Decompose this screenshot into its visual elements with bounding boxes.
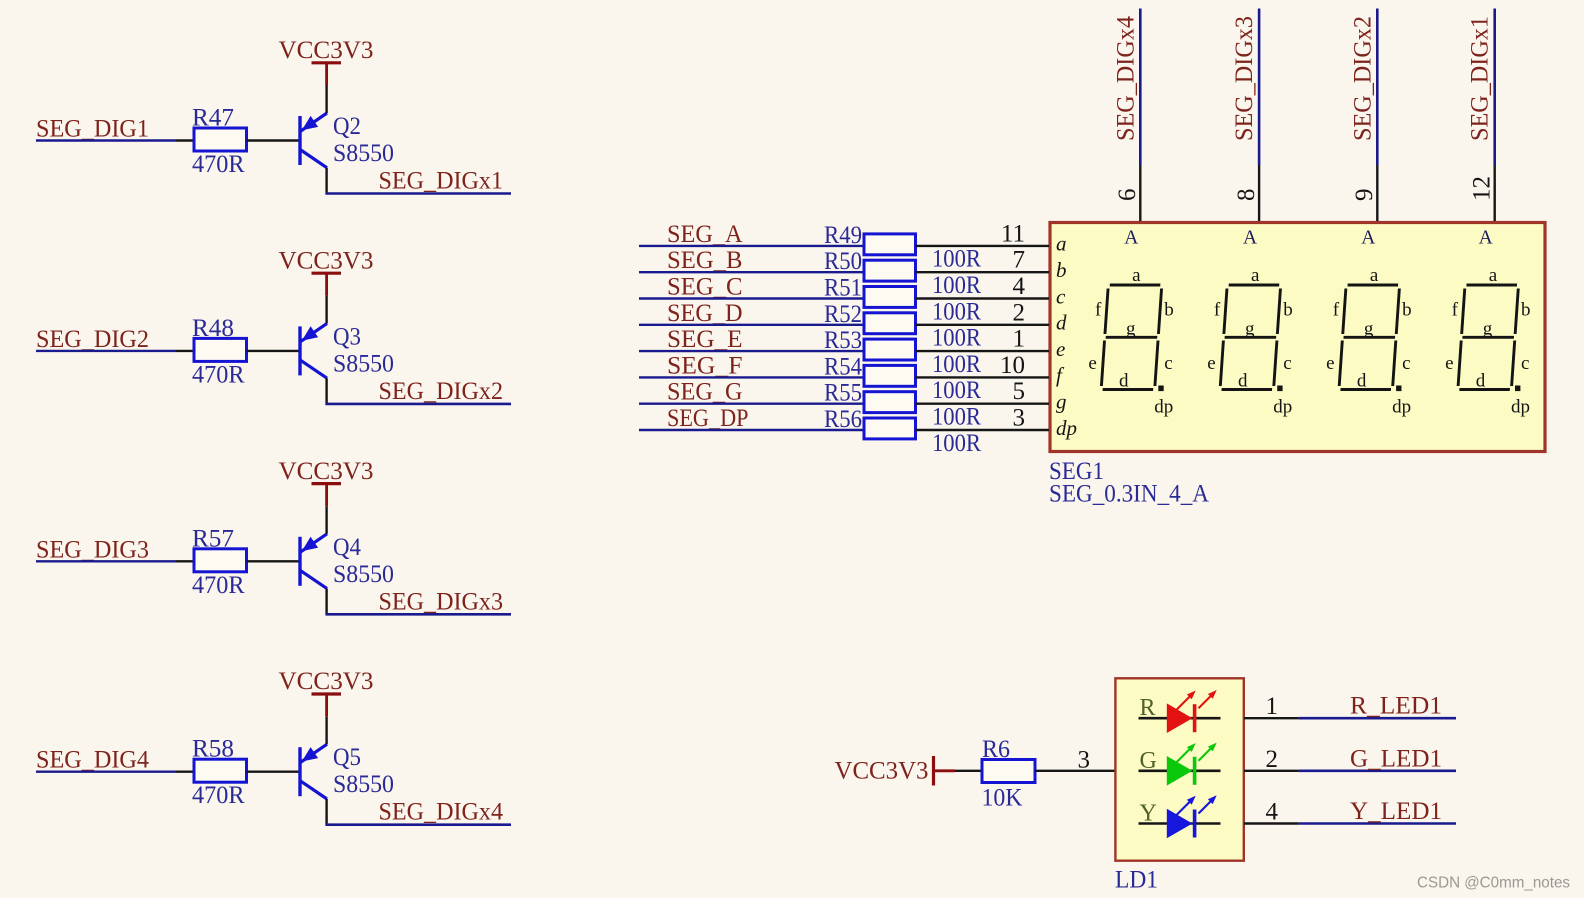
svg-text:dp: dp xyxy=(1511,397,1530,418)
svg-text:R6: R6 xyxy=(982,734,1010,763)
svg-text:SEG_DIG4: SEG_DIG4 xyxy=(36,745,149,774)
svg-text:dp: dp xyxy=(1392,397,1411,418)
wire R48 left pin xyxy=(176,350,193,352)
svg-text:SEG_DIGx1: SEG_DIGx1 xyxy=(379,166,504,195)
svg-text:VCC3V3: VCC3V3 xyxy=(835,756,929,785)
svg-text:f: f xyxy=(1214,300,1221,321)
svg-text:dp: dp xyxy=(1056,416,1077,440)
svg-text:f: f xyxy=(1095,300,1102,321)
svg-text:dp: dp xyxy=(1154,397,1173,418)
svg-text:d: d xyxy=(1119,371,1129,392)
transistor Q3 S8550 xyxy=(300,323,327,378)
svg-text:d: d xyxy=(1238,371,1248,392)
svg-text:SEG_D: SEG_D xyxy=(667,298,743,327)
wire R54 to SEG1 pin 10 xyxy=(916,376,1050,378)
wire R56 to SEG1 pin 3 xyxy=(916,429,1050,431)
svg-text:12: 12 xyxy=(1469,176,1496,201)
svg-text:SEG_G: SEG_G xyxy=(667,377,743,406)
resistor R51 100R xyxy=(864,287,916,308)
resistor R48 470R xyxy=(194,338,247,361)
svg-text:S8550: S8550 xyxy=(333,559,394,588)
transistor Q2 S8550 xyxy=(300,113,327,168)
wire Q2 emitter to power xyxy=(325,86,327,114)
wire R57 to Q4 base xyxy=(247,560,300,562)
wire SEG_DIGx1 xyxy=(325,192,511,195)
svg-text:Q5: Q5 xyxy=(333,742,361,771)
svg-text:Y_LED1: Y_LED1 xyxy=(1350,796,1442,825)
svg-text:R: R xyxy=(1140,695,1156,721)
svg-text:e: e xyxy=(1088,353,1096,374)
svg-text:4: 4 xyxy=(1266,799,1279,826)
svg-text:e: e xyxy=(1445,353,1453,374)
svg-text:c: c xyxy=(1402,353,1410,374)
svg-text:R50: R50 xyxy=(824,246,862,275)
svg-text:SEG_DIGx4: SEG_DIGx4 xyxy=(1110,16,1139,141)
wire R6 to LD1 pin 3 xyxy=(1035,770,1115,772)
svg-text:100R: 100R xyxy=(932,296,982,325)
wire R57 left pin xyxy=(176,560,193,562)
svg-text:g: g xyxy=(1364,319,1374,340)
wire R_LED1 xyxy=(1299,717,1456,720)
svg-text:LD1: LD1 xyxy=(1115,865,1158,894)
svg-text:SEG_F: SEG_F xyxy=(667,350,743,379)
svg-text:a: a xyxy=(1489,265,1498,286)
wire R47 to Q2 base xyxy=(247,139,300,141)
svg-text:A: A xyxy=(1361,228,1375,249)
LED Y right pin xyxy=(1244,822,1299,824)
svg-text:e: e xyxy=(1326,353,1334,374)
svg-text:S8550: S8550 xyxy=(333,138,394,167)
svg-text:11: 11 xyxy=(1001,220,1025,247)
wire SEG_B to R50 xyxy=(639,271,864,273)
svg-text:SEG_DIG1: SEG_DIG1 xyxy=(36,114,149,143)
svg-text:R57: R57 xyxy=(192,523,234,552)
wire R50 to SEG1 pin 7 xyxy=(916,271,1050,273)
svg-text:b: b xyxy=(1164,300,1174,321)
svg-text:a: a xyxy=(1251,265,1260,286)
wire VCC3V3 to R6 xyxy=(955,770,982,772)
wire SEG_DIG4 to R58 xyxy=(36,771,176,773)
LED R internal wire xyxy=(1139,717,1221,720)
transistor Q4 S8550 xyxy=(300,534,327,589)
svg-text:470R: 470R xyxy=(192,780,245,809)
power port VCC3V3 xyxy=(325,694,328,717)
wire R58 left pin xyxy=(176,771,193,773)
svg-text:A: A xyxy=(1124,228,1138,249)
resistor R58 470R xyxy=(194,759,247,782)
svg-text:A: A xyxy=(1479,228,1493,249)
resistor R50 100R xyxy=(864,260,916,281)
svg-text:G_LED1: G_LED1 xyxy=(1350,743,1442,772)
wire SEG_F to R54 xyxy=(639,376,864,378)
svg-text:3: 3 xyxy=(1013,405,1026,432)
resistor R49 100R xyxy=(864,234,916,255)
svg-text:dp: dp xyxy=(1273,397,1292,418)
wire Q5 emitter to power xyxy=(325,717,327,745)
svg-text:a: a xyxy=(1132,265,1141,286)
svg-text:R53: R53 xyxy=(824,325,862,354)
resistor R52 100R xyxy=(864,313,916,334)
wire R48 to Q3 base xyxy=(247,350,300,352)
svg-text:R52: R52 xyxy=(824,299,862,328)
svg-text:SEG_0.3IN_4_A: SEG_0.3IN_4_A xyxy=(1049,479,1209,508)
svg-text:e: e xyxy=(1056,337,1065,361)
resistor R55 100R xyxy=(864,392,916,413)
power port VCC3V3 xyxy=(325,273,328,296)
resistor R6 10K xyxy=(982,760,1035,783)
svg-text:S8550: S8550 xyxy=(333,348,394,377)
svg-text:SEG_DIGx3: SEG_DIGx3 xyxy=(1229,16,1258,141)
wire Q2 collector xyxy=(325,168,327,194)
svg-text:SEG_DIGx2: SEG_DIGx2 xyxy=(1347,16,1376,141)
LED G right pin xyxy=(1244,770,1299,772)
svg-text:Q3: Q3 xyxy=(333,321,361,350)
power port VCC3V3 xyxy=(325,63,328,86)
svg-text:R_LED1: R_LED1 xyxy=(1350,691,1442,720)
svg-text:7: 7 xyxy=(1013,247,1026,274)
svg-text:SEG_B: SEG_B xyxy=(667,245,743,274)
svg-text:b: b xyxy=(1402,300,1412,321)
pin 12 wire xyxy=(1493,165,1495,221)
LED R symbol xyxy=(1167,690,1217,733)
svg-text:a: a xyxy=(1056,232,1067,256)
svg-text:100R: 100R xyxy=(932,323,982,352)
svg-text:SEG_E: SEG_E xyxy=(667,324,743,353)
svg-text:100R: 100R xyxy=(932,375,982,404)
svg-text:SEG_DIGx4: SEG_DIGx4 xyxy=(379,797,504,826)
svg-text:g: g xyxy=(1056,390,1067,414)
wire SEG_DIGx4 vertical xyxy=(1139,9,1142,166)
wire SEG_DIGx3 vertical xyxy=(1258,9,1261,166)
svg-text:SEG_C: SEG_C xyxy=(667,272,743,301)
svg-text:g: g xyxy=(1126,319,1136,340)
svg-text:9: 9 xyxy=(1351,189,1378,202)
digit glyph 4 xyxy=(1458,285,1519,390)
svg-text:c: c xyxy=(1521,353,1529,374)
digit glyph 2 xyxy=(1220,285,1281,390)
svg-text:100R: 100R xyxy=(932,244,982,273)
svg-text:f: f xyxy=(1452,300,1459,321)
pin 8 wire xyxy=(1258,165,1260,221)
svg-text:SEG_DIGx2: SEG_DIGx2 xyxy=(379,376,504,405)
wire R49 to SEG1 pin 11 xyxy=(916,245,1050,247)
transistor Q5 S8550 xyxy=(300,744,327,799)
svg-text:d: d xyxy=(1056,311,1067,335)
svg-text:10: 10 xyxy=(1000,352,1025,379)
LED R right pin xyxy=(1244,717,1299,719)
svg-text:a: a xyxy=(1370,265,1379,286)
svg-text:100R: 100R xyxy=(932,402,982,431)
wire SEG_DIGx2 xyxy=(325,403,511,406)
svg-text:R49: R49 xyxy=(824,220,862,249)
wire R51 to SEG1 pin 4 xyxy=(916,297,1050,299)
svg-text:d: d xyxy=(1476,371,1486,392)
svg-text:470R: 470R xyxy=(192,149,245,178)
svg-text:R56: R56 xyxy=(824,404,862,433)
wire SEG_D to R52 xyxy=(639,324,864,326)
svg-text:d: d xyxy=(1357,371,1367,392)
svg-text:b: b xyxy=(1056,258,1067,282)
wire SEG_E to R53 xyxy=(639,350,864,352)
svg-text:c: c xyxy=(1283,353,1291,374)
svg-text:SEG_DIG2: SEG_DIG2 xyxy=(36,324,149,353)
svg-text:G: G xyxy=(1140,748,1157,774)
svg-text:4: 4 xyxy=(1013,273,1026,300)
svg-text:470R: 470R xyxy=(192,570,245,599)
svg-text:R48: R48 xyxy=(192,313,234,342)
svg-text:100R: 100R xyxy=(932,270,982,299)
svg-text:SEG_A: SEG_A xyxy=(667,219,743,248)
7-segment display SEG1 body xyxy=(1050,223,1545,452)
svg-text:g: g xyxy=(1483,319,1493,340)
digit glyph 1 xyxy=(1101,285,1162,390)
svg-text:SEG_DIG3: SEG_DIG3 xyxy=(36,534,149,563)
wire SEG_DP to R56 xyxy=(639,429,864,431)
wire Q5 collector xyxy=(325,799,327,825)
wire SEG_DIGx2 vertical xyxy=(1376,9,1379,166)
svg-text:VCC3V3: VCC3V3 xyxy=(279,245,374,274)
svg-text:5: 5 xyxy=(1013,378,1026,405)
LED Y symbol xyxy=(1167,795,1217,838)
pin 6 wire xyxy=(1139,165,1141,221)
svg-text:Q4: Q4 xyxy=(333,532,361,561)
digit glyph 3 xyxy=(1339,285,1400,390)
svg-text:10K: 10K xyxy=(982,783,1023,812)
wire R55 to SEG1 pin 5 xyxy=(916,403,1050,405)
wire R58 to Q5 base xyxy=(247,771,300,773)
wire SEG_C to R51 xyxy=(639,297,864,299)
svg-text:f: f xyxy=(1333,300,1340,321)
svg-text:e: e xyxy=(1207,353,1215,374)
wire SEG_DIGx1 vertical xyxy=(1493,9,1496,166)
svg-text:R55: R55 xyxy=(824,378,862,407)
svg-text:470R: 470R xyxy=(192,359,245,388)
svg-text:8: 8 xyxy=(1233,189,1260,202)
wire Q4 emitter to power xyxy=(325,506,327,534)
svg-text:c: c xyxy=(1056,284,1066,308)
wire SEG_G to R55 xyxy=(639,403,864,405)
wire SEG_DIG1 to R47 xyxy=(36,139,176,141)
wire SEG_DIG3 to R57 xyxy=(36,560,176,562)
svg-text:100R: 100R xyxy=(932,428,982,457)
svg-text:b: b xyxy=(1521,300,1531,321)
LED Y internal wire xyxy=(1139,822,1221,825)
svg-text:3: 3 xyxy=(1078,747,1091,774)
svg-text:1: 1 xyxy=(1013,326,1026,353)
resistor R53 100R xyxy=(864,339,916,360)
wire Q3 emitter to power xyxy=(325,296,327,324)
wire SEG_DIGx3 xyxy=(325,613,511,616)
svg-text:S8550: S8550 xyxy=(333,769,394,798)
pin 9 wire xyxy=(1376,165,1378,221)
wire Q4 collector xyxy=(325,589,327,615)
svg-text:c: c xyxy=(1164,353,1172,374)
svg-text:VCC3V3: VCC3V3 xyxy=(279,666,374,695)
svg-text:VCC3V3: VCC3V3 xyxy=(279,456,374,485)
resistor R57 470R xyxy=(194,549,247,572)
svg-text:100R: 100R xyxy=(932,349,982,378)
svg-text:A: A xyxy=(1243,228,1257,249)
svg-text:SEG_DIGx1: SEG_DIGx1 xyxy=(1465,16,1494,141)
svg-text:b: b xyxy=(1283,300,1293,321)
svg-text:Y: Y xyxy=(1140,801,1157,827)
wire SEG_A to R49 xyxy=(639,245,864,247)
svg-text:g: g xyxy=(1245,319,1255,340)
wire R47 left pin xyxy=(176,139,193,141)
resistor R47 470R xyxy=(194,128,247,151)
LED G symbol xyxy=(1167,743,1217,786)
svg-text:1: 1 xyxy=(1266,693,1279,720)
svg-text:2: 2 xyxy=(1013,299,1026,326)
power port VCC3V3 xyxy=(325,484,328,507)
svg-text:6: 6 xyxy=(1114,189,1141,202)
svg-text:R47: R47 xyxy=(192,103,234,132)
svg-text:SEG_DP: SEG_DP xyxy=(667,403,749,432)
svg-text:R51: R51 xyxy=(824,273,862,302)
resistor R56 100R xyxy=(864,418,916,439)
wire Q3 collector xyxy=(325,378,327,404)
svg-text:CSDN @C0mm_notes: CSDN @C0mm_notes xyxy=(1417,875,1570,892)
svg-text:R58: R58 xyxy=(192,734,234,763)
wire SEG_DIG2 to R48 xyxy=(36,350,176,352)
wire R53 to SEG1 pin 1 xyxy=(916,350,1050,352)
wire R52 to SEG1 pin 2 xyxy=(916,324,1050,326)
LED G internal wire xyxy=(1139,769,1221,772)
svg-text:Q2: Q2 xyxy=(333,111,361,140)
wire G_LED1 xyxy=(1299,769,1456,772)
resistor R54 100R xyxy=(864,365,916,386)
wire SEG_DIGx4 xyxy=(325,823,511,826)
svg-text:2: 2 xyxy=(1266,746,1279,773)
LED module LD1 body xyxy=(1115,678,1243,860)
svg-text:VCC3V3: VCC3V3 xyxy=(279,35,374,64)
svg-text:R54: R54 xyxy=(824,351,862,380)
svg-text:SEG_DIGx3: SEG_DIGx3 xyxy=(379,586,504,615)
wire Y_LED1 xyxy=(1299,822,1456,825)
